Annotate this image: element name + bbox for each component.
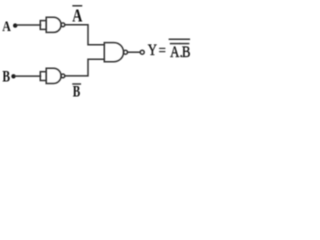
NAND gate G2 shorted-input box (40, 72, 46, 81)
svg-text:B: B (73, 82, 80, 99)
NAND gate G1 shorted-input box (40, 21, 46, 30)
long overbar over A.B (169, 38, 189, 40)
svg-text:B: B (2, 69, 10, 86)
wire from G1 bubble down to middle gate top input (65, 25, 105, 45)
label Bbar overbar (73, 83, 80, 85)
NAND gate G1 output bubble (61, 23, 65, 27)
NAND gate G3 output bubble (124, 50, 128, 54)
NAND gate G2 body (46, 68, 61, 83)
NAND gate G2 output bubble (61, 74, 65, 78)
svg-text:Y: Y (148, 42, 158, 60)
node A terminal dot (13, 23, 17, 27)
svg-text:A: A (170, 44, 180, 62)
output terminal open circle (140, 50, 144, 54)
wire from B to gate G2 (15, 75, 41, 77)
overbar over A (171, 43, 180, 45)
svg-text:B: B (182, 44, 191, 62)
svg-text:A: A (2, 18, 11, 34)
NAND gate G1 body (46, 17, 61, 32)
node B terminal dot (11, 74, 15, 78)
label Abar overbar (73, 5, 81, 7)
overbar over B (180, 43, 188, 45)
wire from A to gate G1 (17, 24, 41, 26)
wire from G2 bubble up to middle gate bottom input (65, 59, 105, 76)
NAND gate G3 body (104, 43, 123, 62)
output wire (128, 51, 141, 53)
svg-text:=: = (159, 42, 166, 60)
svg-text:A: A (72, 7, 82, 26)
